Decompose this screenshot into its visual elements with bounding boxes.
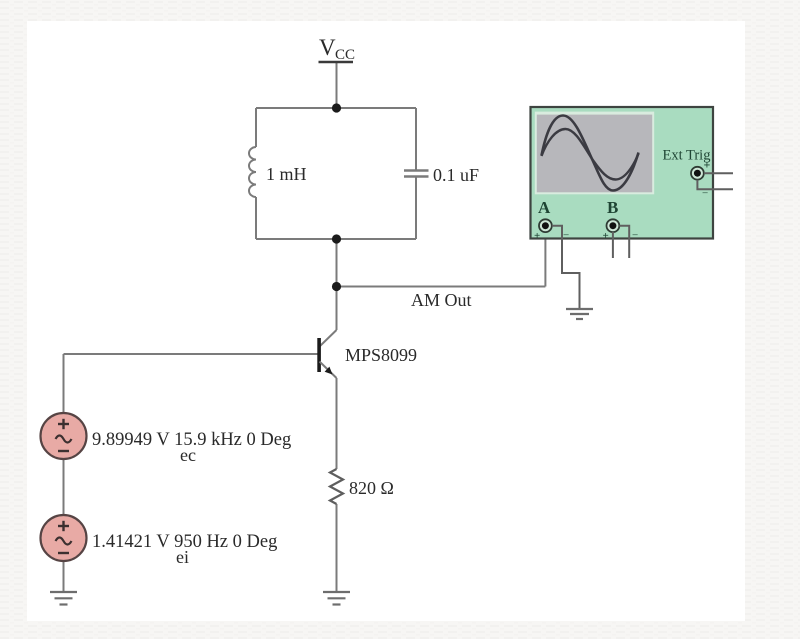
svg-text:820 Ω: 820 Ω — [349, 478, 394, 498]
source V1 ec — [41, 413, 87, 459]
svg-text:−: − — [632, 230, 638, 242]
svg-text:A: A — [538, 198, 551, 217]
svg-text:ei: ei — [176, 547, 189, 567]
svg-text:B: B — [607, 198, 618, 217]
wire tank right upper — [415, 108, 417, 170]
scope trace outer — [542, 116, 639, 191]
inductor L1 — [249, 147, 256, 197]
svg-text:+: + — [603, 230, 609, 242]
wire tank right lower — [415, 178, 417, 240]
svg-text:1 mH: 1 mH — [266, 164, 307, 184]
node AM out — [332, 282, 341, 291]
wire between sources — [63, 459, 65, 515]
svg-text:0.1 uF: 0.1 uF — [433, 165, 479, 185]
svg-text:−: − — [563, 230, 569, 242]
svg-text:AM Out: AM Out — [411, 290, 472, 310]
wire B stub 1 — [612, 232, 614, 258]
wire tank bottom — [256, 238, 416, 240]
node bottom tank — [332, 234, 341, 243]
ground below sources — [50, 592, 77, 605]
source V2 ei — [41, 515, 87, 561]
svg-text:ec: ec — [180, 445, 196, 465]
Vcc label — [319, 35, 356, 63]
oscilloscope XSC1 — [531, 107, 734, 309]
wire VCC stem — [336, 63, 338, 109]
wire ext trig minus — [697, 180, 733, 190]
ground scope — [566, 309, 593, 319]
wire source2 to ground — [63, 561, 65, 592]
wire collector vertical — [336, 287, 338, 331]
svg-text:+: + — [704, 158, 711, 172]
wire AM Out horizontal — [337, 286, 546, 288]
node top tank — [332, 103, 341, 112]
wire node to AM node — [336, 239, 338, 287]
scope trace inner — [542, 129, 639, 180]
resistor R1 820ohm — [330, 469, 343, 504]
wire scope A down to AM node — [544, 232, 546, 287]
wire ext trig plus — [704, 172, 733, 174]
ground below resistor — [323, 592, 350, 605]
capacitor C1 — [404, 171, 429, 177]
wire source branch upper — [63, 354, 65, 413]
wire tank left lower — [255, 197, 257, 239]
svg-text:MPS8099: MPS8099 — [345, 345, 417, 365]
svg-text:−: − — [702, 188, 708, 200]
svg-text:V: V — [319, 35, 336, 60]
wire resistor to ground — [336, 504, 338, 592]
wire tank left upper — [255, 108, 257, 147]
connector A — [539, 219, 552, 232]
svg-text:+: + — [534, 230, 540, 242]
wire emitter vertical — [336, 378, 338, 469]
svg-text:CC: CC — [335, 47, 355, 63]
transistor Q1 MPS8099 — [317, 330, 336, 378]
scope screen — [535, 112, 654, 195]
connector B — [607, 219, 620, 232]
wire A minus to ground — [552, 226, 580, 309]
wire base horizontal — [64, 353, 318, 355]
wire tank top — [256, 107, 416, 109]
connector Ext Trig — [691, 167, 704, 180]
wire B stub 2 — [619, 226, 629, 258]
